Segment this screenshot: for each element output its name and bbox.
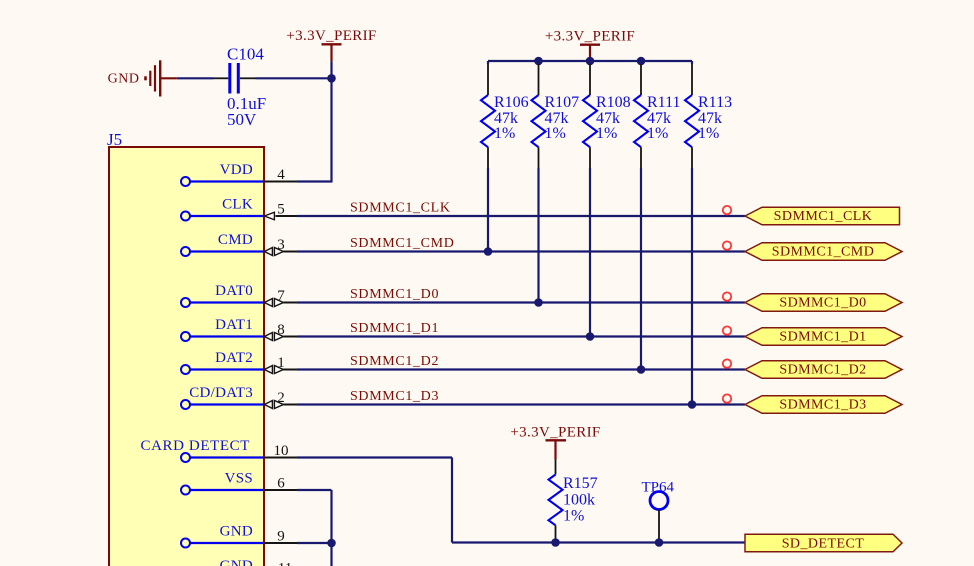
svg-text:SDMMC1_D0: SDMMC1_D0 — [350, 287, 439, 302]
junction R107 row — [534, 298, 543, 307]
value 47k (R111) — [647, 110, 671, 127]
svg-text:VDD: VDD — [220, 162, 253, 178]
wire bus to R108 — [589, 61, 591, 95]
wire SD_DETECT row — [452, 541, 745, 543]
junction R157 row — [551, 538, 560, 547]
svg-text:CMD: CMD — [218, 232, 253, 248]
net label SDMMC1_D1 — [350, 321, 439, 336]
svg-text:TP64: TP64 — [642, 480, 675, 496]
value 1% (R107) — [545, 125, 566, 142]
wire R111 to signal row — [640, 147, 642, 369]
power symbol +3.3V_PERIF (over resistor bank) — [545, 29, 635, 62]
connector J5 body — [109, 147, 264, 566]
svg-text:VSS: VSS — [225, 471, 253, 487]
port SD_DETECT — [745, 534, 902, 552]
svg-text:1%: 1% — [545, 125, 566, 142]
svg-text:SDMMC1_D1: SDMMC1_D1 — [779, 330, 866, 345]
no-ERC marker at SDMMC1_D3 port — [723, 394, 731, 402]
svg-text:CARD DETECT: CARD DETECT — [140, 438, 250, 454]
svg-text:3: 3 — [277, 237, 285, 253]
value 1% (R157) — [563, 507, 584, 524]
no-ERC marker at SDMMC1_D0 port — [723, 292, 731, 300]
label C104 — [227, 45, 264, 64]
wire R107 to signal row — [538, 147, 540, 302]
label R108 — [596, 94, 631, 111]
wire bus to R106 — [487, 61, 489, 95]
port SDMMC1_D1 — [745, 328, 902, 346]
wire VSS row — [297, 489, 332, 491]
value 1% (R106) — [494, 125, 515, 142]
port SDMMC1_CMD — [745, 243, 902, 261]
svg-text:11: 11 — [278, 561, 292, 566]
wire VDD row — [297, 180, 333, 182]
junction GND node — [327, 539, 336, 548]
svg-text:4: 4 — [277, 167, 285, 183]
net label SDMMC1_D3 — [350, 389, 439, 404]
svg-text:+3.3V_PERIF: +3.3V_PERIF — [286, 28, 376, 44]
svg-text:+3.3V_PERIF: +3.3V_PERIF — [545, 29, 635, 45]
svg-text:SDMMC1_CLK: SDMMC1_CLK — [350, 201, 451, 216]
svg-text:SDMMC1_D0: SDMMC1_D0 — [779, 296, 866, 311]
label R106 — [494, 94, 529, 111]
svg-text:8: 8 — [277, 322, 285, 338]
wire net SDMMC1_D1 — [297, 335, 745, 337]
label R107 — [545, 94, 580, 111]
pin GND (pin 9) of J5 — [181, 524, 298, 548]
wire net SDMMC1_CMD — [297, 250, 745, 252]
wire power to R157 — [555, 460, 557, 475]
junction bus R108/power — [586, 57, 595, 66]
pin GND (pin 11) of J5 — [181, 558, 298, 566]
ground symbol GND — [108, 60, 177, 96]
wire GND node down to pin 11 — [330, 543, 332, 566]
resistor R113 — [685, 95, 699, 147]
svg-text:1%: 1% — [494, 125, 515, 142]
test point TP64 — [650, 492, 668, 543]
svg-text:SDMMC1_D1: SDMMC1_D1 — [350, 321, 439, 336]
svg-text:1%: 1% — [563, 507, 584, 524]
wire R108 to signal row — [589, 147, 591, 336]
no-ERC marker at SDMMC1_D2 port — [723, 359, 731, 367]
net label SDMMC1_CMD — [350, 236, 455, 251]
junction bus R107 — [534, 57, 543, 66]
svg-text:1: 1 — [277, 355, 285, 371]
svg-text:9: 9 — [277, 529, 285, 545]
svg-text:SDMMC1_D2: SDMMC1_D2 — [350, 354, 439, 369]
resistor R111 — [634, 95, 648, 147]
wire bus to R113 — [691, 61, 693, 95]
wire CARD DETECT row — [297, 456, 452, 458]
pin DAT1 (pin 8) of J5 — [181, 317, 298, 341]
wire GND to C104 — [177, 77, 214, 79]
wire R157 to SD_DETECT row — [555, 525, 557, 542]
resistor R157 — [549, 475, 563, 526]
wire power stem to node A — [330, 61, 332, 78]
power symbol +3.3V_PERIF (over R157) — [510, 424, 600, 459]
value 1% (R113) — [698, 125, 719, 142]
value 0.1uF — [227, 94, 266, 113]
designator J5 — [107, 130, 122, 149]
value 47k (R106) — [494, 110, 518, 127]
label R111 — [647, 94, 680, 111]
net label SDMMC1_CLK — [350, 201, 451, 216]
svg-text:100k: 100k — [563, 491, 595, 508]
value 100k — [563, 491, 595, 508]
svg-text:DAT1: DAT1 — [215, 317, 253, 333]
svg-text:2: 2 — [277, 390, 285, 406]
svg-text:10: 10 — [274, 443, 289, 459]
svg-text:DAT2: DAT2 — [215, 350, 253, 366]
svg-text:SDMMC1_CLK: SDMMC1_CLK — [774, 209, 873, 224]
svg-text:5: 5 — [277, 202, 285, 218]
value 47k (R107) — [545, 110, 569, 127]
label TP64 — [642, 480, 675, 496]
pin CLK (pin 5) of J5 — [181, 197, 298, 221]
value 50V — [227, 110, 257, 129]
pin CD/DAT3 (pin 2) of J5 — [181, 385, 298, 409]
svg-text:R108: R108 — [596, 94, 631, 111]
junction R111 row — [637, 365, 646, 374]
svg-text:J5: J5 — [107, 130, 122, 149]
net label SDMMC1_D0 — [350, 287, 439, 302]
capacitor C104 — [214, 63, 256, 94]
pin VSS (pin 6) of J5 — [181, 471, 298, 495]
svg-text:R111: R111 — [647, 94, 680, 111]
wire net SDMMC1_D0 — [297, 301, 745, 303]
resistor R107 — [532, 95, 546, 147]
label R157 — [563, 475, 598, 492]
value 47k (R108) — [596, 110, 620, 127]
svg-text:SDMMC1_D3: SDMMC1_D3 — [350, 389, 439, 404]
wire R113 to signal row — [691, 147, 693, 404]
svg-text:SDMMC1_CMD: SDMMC1_CMD — [350, 236, 455, 251]
resistor R108 — [583, 95, 597, 147]
svg-text:SDMMC1_D3: SDMMC1_D3 — [779, 398, 866, 413]
power symbol +3.3V_PERIF (over C104) — [286, 28, 376, 61]
svg-text:1%: 1% — [596, 125, 617, 142]
net label SDMMC1_D2 — [350, 354, 439, 369]
junction bus R111 — [637, 57, 646, 66]
junction node A — [327, 74, 336, 83]
svg-text:7: 7 — [277, 288, 285, 304]
svg-text:SDMMC1_CMD: SDMMC1_CMD — [772, 245, 875, 260]
value 1% (R111) — [647, 125, 668, 142]
svg-text:CLK: CLK — [222, 197, 253, 213]
svg-text:R106: R106 — [494, 94, 529, 111]
wire GND row — [297, 542, 332, 544]
svg-text:C104: C104 — [227, 45, 264, 64]
resistor R106 — [481, 95, 495, 147]
junction R106 row — [484, 247, 493, 256]
junction R113 row — [688, 400, 697, 409]
wire net SDMMC1_D3 — [297, 403, 745, 405]
wire CARD DETECT down — [451, 458, 453, 543]
svg-text:R107: R107 — [545, 94, 580, 111]
wire resistor-bank top bus — [488, 60, 692, 62]
junction R108 row — [586, 332, 595, 341]
value 47k (R113) — [698, 110, 722, 127]
svg-text:1%: 1% — [698, 125, 719, 142]
wire bus to R107 — [537, 61, 539, 95]
svg-text:50V: 50V — [227, 110, 257, 129]
wire bus to R111 — [640, 61, 642, 95]
pin DAT0 (pin 7) of J5 — [181, 283, 298, 307]
no-ERC marker at SDMMC1_D1 port — [723, 326, 731, 334]
svg-text:+3.3V_PERIF: +3.3V_PERIF — [510, 424, 600, 440]
svg-text:6: 6 — [277, 476, 285, 492]
port SDMMC1_CLK — [745, 207, 900, 225]
wire C104 to +3.3V_PERIF node — [256, 77, 332, 79]
svg-text:GND: GND — [108, 72, 140, 87]
svg-text:1%: 1% — [647, 125, 668, 142]
svg-text:SD_DETECT: SD_DETECT — [782, 536, 865, 551]
svg-text:CD/DAT3: CD/DAT3 — [189, 385, 253, 401]
wire net SDMMC1_CLK — [297, 215, 745, 217]
wire net SDMMC1_D2 — [297, 368, 745, 370]
port SDMMC1_D0 — [745, 294, 902, 312]
port SDMMC1_D3 — [745, 396, 902, 414]
svg-text:GND: GND — [220, 524, 253, 540]
svg-text:R157: R157 — [563, 475, 598, 492]
pin DAT2 (pin 1) of J5 — [181, 350, 298, 374]
value 1% (R108) — [596, 125, 617, 142]
wire R106 to signal row — [487, 147, 489, 251]
wire node A down to VDD row — [330, 78, 332, 181]
label R113 — [698, 94, 732, 111]
pin CARD DETECT (pin 10) of J5 — [140, 438, 297, 462]
wire VSS down to GND node — [330, 490, 332, 543]
port SDMMC1_D2 — [745, 361, 902, 379]
junction TP64 row — [655, 538, 664, 547]
pin CMD (pin 3) of J5 — [181, 232, 298, 256]
no-ERC marker at SDMMC1_CLK port — [723, 206, 731, 214]
svg-text:R113: R113 — [698, 94, 732, 111]
svg-text:DAT0: DAT0 — [215, 283, 253, 299]
svg-text:GND: GND — [220, 558, 253, 566]
no-ERC marker at SDMMC1_CMD port — [723, 241, 731, 249]
pin VDD (pin 4) of J5 — [181, 162, 298, 186]
svg-text:SDMMC1_D2: SDMMC1_D2 — [779, 363, 866, 378]
